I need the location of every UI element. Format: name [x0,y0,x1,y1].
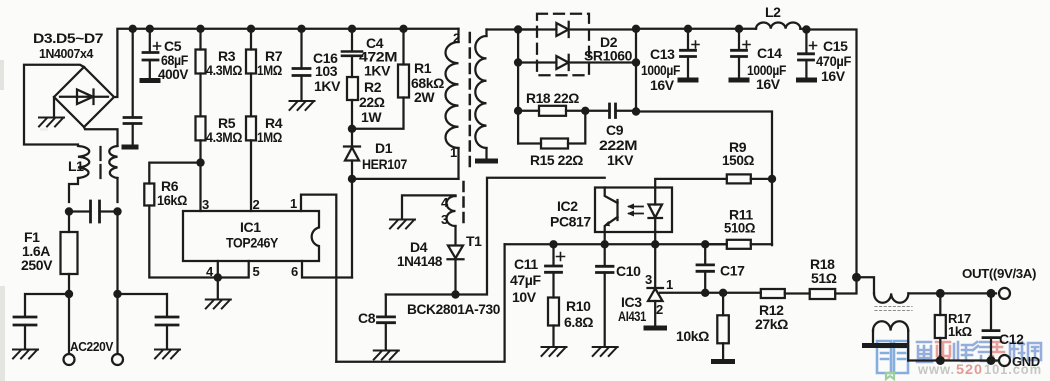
svg-text:1W: 1W [361,109,382,125]
svg-text:16V: 16V [821,68,846,84]
AC terminal N [112,354,123,365]
resistor R2 22R 1W [347,77,358,100]
resistor R15 22R [518,142,541,144]
svg-text:1: 1 [666,277,673,292]
wire control bottom run [336,244,504,361]
diode D2a [518,28,636,30]
svg-text:3: 3 [202,197,209,212]
opto phototransistor [605,188,618,204]
svg-text:R18 22Ω: R18 22Ω [526,90,579,106]
resistor R11 510R [727,240,751,249]
resistor 10k [722,293,724,316]
node dot drain [348,175,356,183]
svg-text:AI431: AI431 [618,308,646,324]
ground right cap [155,350,180,359]
optocoupler IC2 PC817 box [595,188,672,233]
capacitor line-filter left [14,317,36,325]
svg-text:47µF: 47µF [510,272,541,288]
svg-text:6.8Ω: 6.8Ω [564,314,593,330]
svg-text:4.3MΩ: 4.3MΩ [206,129,242,145]
IC1 pin 6 wire to drain [302,261,352,278]
choke L1 core [99,147,101,178]
svg-text:16kΩ: 16kΩ [157,192,187,208]
node dots D2 cathode column [635,29,637,112]
choke L1 right winding [109,146,117,178]
capacitor C15 470uF 16V [805,30,807,54]
node dots output [936,289,945,298]
svg-text:520: 520 [956,362,983,377]
svg-text:GND: GND [1012,354,1040,369]
svg-text:TOP246Y: TOP246Y [226,235,279,251]
IC1 pin 1 wire up-right [301,195,336,362]
X capacitor across line [69,210,118,212]
node dot right line [113,290,121,298]
svg-text:1N4007x4: 1N4007x4 [39,46,94,61]
svg-text:1MΩ: 1MΩ [257,62,282,78]
svg-text:C17: C17 [720,263,745,279]
svg-text:3: 3 [441,212,448,227]
OUT terminal [999,288,1010,299]
watermark url [917,362,1042,377]
svg-text:PC817: PC817 [550,214,591,230]
resistor R7 1M [250,29,252,50]
wire to output choke [857,277,875,293]
bar ground under cap [122,145,139,150]
svg-text:1N4148: 1N4148 [397,253,443,269]
svg-text:16V: 16V [756,76,781,92]
node dot F1 bottom [65,290,73,298]
diode D1 HER107 [351,129,353,147]
svg-text:C13: C13 [650,46,675,62]
shunt reg IC3 AI431 [654,244,656,287]
T1 secondary return bar [475,159,498,164]
svg-text:SR1060: SR1060 [584,48,633,64]
svg-text:3: 3 [645,272,652,287]
ground at bridge [53,97,55,117]
svg-text:4.3MΩ: 4.3MΩ [206,62,242,78]
svg-text:6: 6 [291,264,298,279]
svg-text:1: 1 [450,145,457,160]
svg-text:C14: C14 [757,45,782,61]
node dot snubber [348,125,356,133]
wire top bus [117,28,458,30]
node dots X-cap [65,207,73,215]
wire bias node [386,178,605,295]
choke L1 left winding [78,146,89,178]
resistor R18b 51R [810,289,836,299]
svg-text:1: 1 [290,196,297,211]
resistor R4 1M [246,116,256,140]
capacitor C8 [385,295,387,317]
svg-text:2: 2 [453,31,460,46]
resistor R9 150R [655,179,727,188]
svg-text:103: 103 [315,63,338,79]
svg-text:2: 2 [253,197,260,212]
output choke bottom winding [873,321,908,330]
watermark book icon [877,341,908,373]
label F1 1.6A 250V [21,229,53,273]
svg-text:R15 22Ω: R15 22Ω [530,152,583,168]
svg-text:1KV: 1KV [364,63,391,79]
IC1 pin 3 [199,163,201,211]
svg-text:150Ω: 150Ω [722,152,754,168]
svg-text:C12: C12 [999,331,1024,347]
svg-text:T1: T1 [466,233,482,249]
wire right line caps row [118,212,168,316]
svg-text:C10: C10 [616,263,641,279]
node dot R5 to R6 [196,158,204,166]
svg-text:5: 5 [253,264,260,279]
svg-text:L2: L2 [765,4,781,20]
T1 core dashed line [469,33,472,168]
svg-text:R10: R10 [566,298,591,314]
svg-text:AC220V: AC220V [70,339,114,354]
capacitor C5 68uF 400V [149,29,151,52]
diode D4 1N4148 [454,226,456,245]
svg-text:R2: R2 [364,79,382,95]
resistor R12 27k [761,289,785,298]
svg-text:222M: 222M [599,137,637,153]
watermark book ribbon [886,373,894,379]
svg-text:C9: C9 [606,122,624,138]
IC1 TOP246Y box [183,211,319,261]
resistor R3 4.3M [199,29,201,50]
svg-text:1000µF: 1000µF [641,62,681,78]
svg-text:10kΩ: 10kΩ [676,328,709,344]
svg-text:L1: L1 [68,158,84,174]
IC1 pin 5 [218,261,249,278]
capacitor C14 1000uF 16V [738,29,740,50]
svg-text:HER107: HER107 [362,156,408,172]
svg-text:4: 4 [206,264,214,279]
svg-text:2: 2 [656,302,663,317]
capacitor C17 [704,244,706,264]
output choke core marks [875,307,912,311]
svg-text:D1: D1 [375,140,393,156]
IC1 pin 4 to ground [217,261,219,299]
resistor R1 68k 2W [402,29,404,65]
svg-text:www.: www. [917,362,955,377]
wire C9 node to R9/R11 column [636,112,772,246]
resistor R5 4.3M [196,116,206,140]
wire +V rail [636,28,756,30]
resistor R10 6.8R [552,272,554,297]
node dot D4 out [451,290,459,298]
capacitor C16 103 1KV [300,29,302,69]
svg-text:1KV: 1KV [607,152,634,168]
capacitor C11 47uF 10V [552,244,554,265]
bottom winding right to gnd rail [907,331,909,361]
bridge rectifier D3 D5-D7 [54,67,114,127]
diode D2b [518,61,636,63]
wire L1 left to X-cap node [69,178,78,202]
AC terminal L [64,354,75,365]
emitter/feedback rail [505,243,727,245]
wire bridge right corner up to bus [114,31,117,97]
T1 secondary winding [485,30,487,37]
svg-text:16V: 16V [650,77,675,93]
svg-text:R1: R1 [414,60,432,76]
wire rail to right column [806,30,856,278]
capacitor C13 1000uF 16V [687,29,689,50]
resistor R18 22R [514,107,522,115]
capacitor line-filter right [156,317,178,325]
output choke top winding [874,293,908,302]
svg-text:C15: C15 [823,38,848,54]
capacitor (bus to chassis) [132,29,134,117]
wire drain to primary and pin6 [352,179,459,278]
capacitor C9 222M 1KV [585,110,636,112]
svg-text:1MΩ: 1MΩ [257,129,282,145]
wire gnd rail [908,359,999,361]
watermark chinese text (stylized strokes) [917,342,1041,362]
svg-text:470µF: 470µF [816,53,852,69]
svg-text:C8: C8 [358,310,376,326]
T1 primary winding pins 2-1 [457,29,459,42]
svg-text:250V: 250V [21,257,53,273]
svg-text:1KV: 1KV [314,78,341,94]
T1 aux winding pins 4-3 [447,196,456,226]
opto LED [654,188,656,205]
svg-text:IC2: IC2 [557,198,578,214]
capacitor C12 [990,293,992,330]
svg-text:400V: 400V [158,66,189,82]
inductor L2 [756,22,800,28]
svg-text:C11: C11 [514,256,538,272]
D2 dashed package box [537,14,589,76]
node dots bus [129,25,137,33]
svg-text:2W: 2W [414,89,435,105]
ref wire [660,292,761,294]
wire bridge top to left loop [24,65,84,145]
wire secondary top to D2 [487,28,538,30]
opto light arrows [629,207,643,214]
resistor R17 1k [939,293,941,315]
svg-text:51Ω: 51Ω [811,270,837,286]
svg-text:27kΩ: 27kΩ [755,316,788,332]
svg-text:BCK2801A-730: BCK2801A-730 [407,301,501,317]
svg-text:22Ω: 22Ω [359,94,385,110]
bridge diode symbol [60,96,108,98]
capacitor C4 472M 1KV [351,29,353,51]
svg-text:D3.D5~D7: D3.D5~D7 [33,30,104,46]
ground left cap [13,350,38,359]
wire left line caps row [25,294,69,315]
resistor R6 16k [144,184,154,206]
svg-text:10V: 10V [512,289,537,305]
wire bridge bottom corner to L1 right [84,127,118,146]
GND terminal [999,355,1010,366]
svg-text:OUT((9V/3A): OUT((9V/3A) [962,266,1036,281]
wire aux pin4 to ground [402,195,456,219]
wire R5 node to R6 [149,163,200,184]
svg-text:IC1: IC1 [240,219,261,235]
fuse F1 [68,212,70,233]
svg-text:4: 4 [441,195,449,210]
wire L1 right down [116,178,118,202]
svg-text:1kΩ: 1kΩ [948,324,972,339]
capacitor C10 [604,244,606,266]
svg-text:510Ω: 510Ω [724,220,755,236]
bottom winding left to bar [872,331,874,344]
